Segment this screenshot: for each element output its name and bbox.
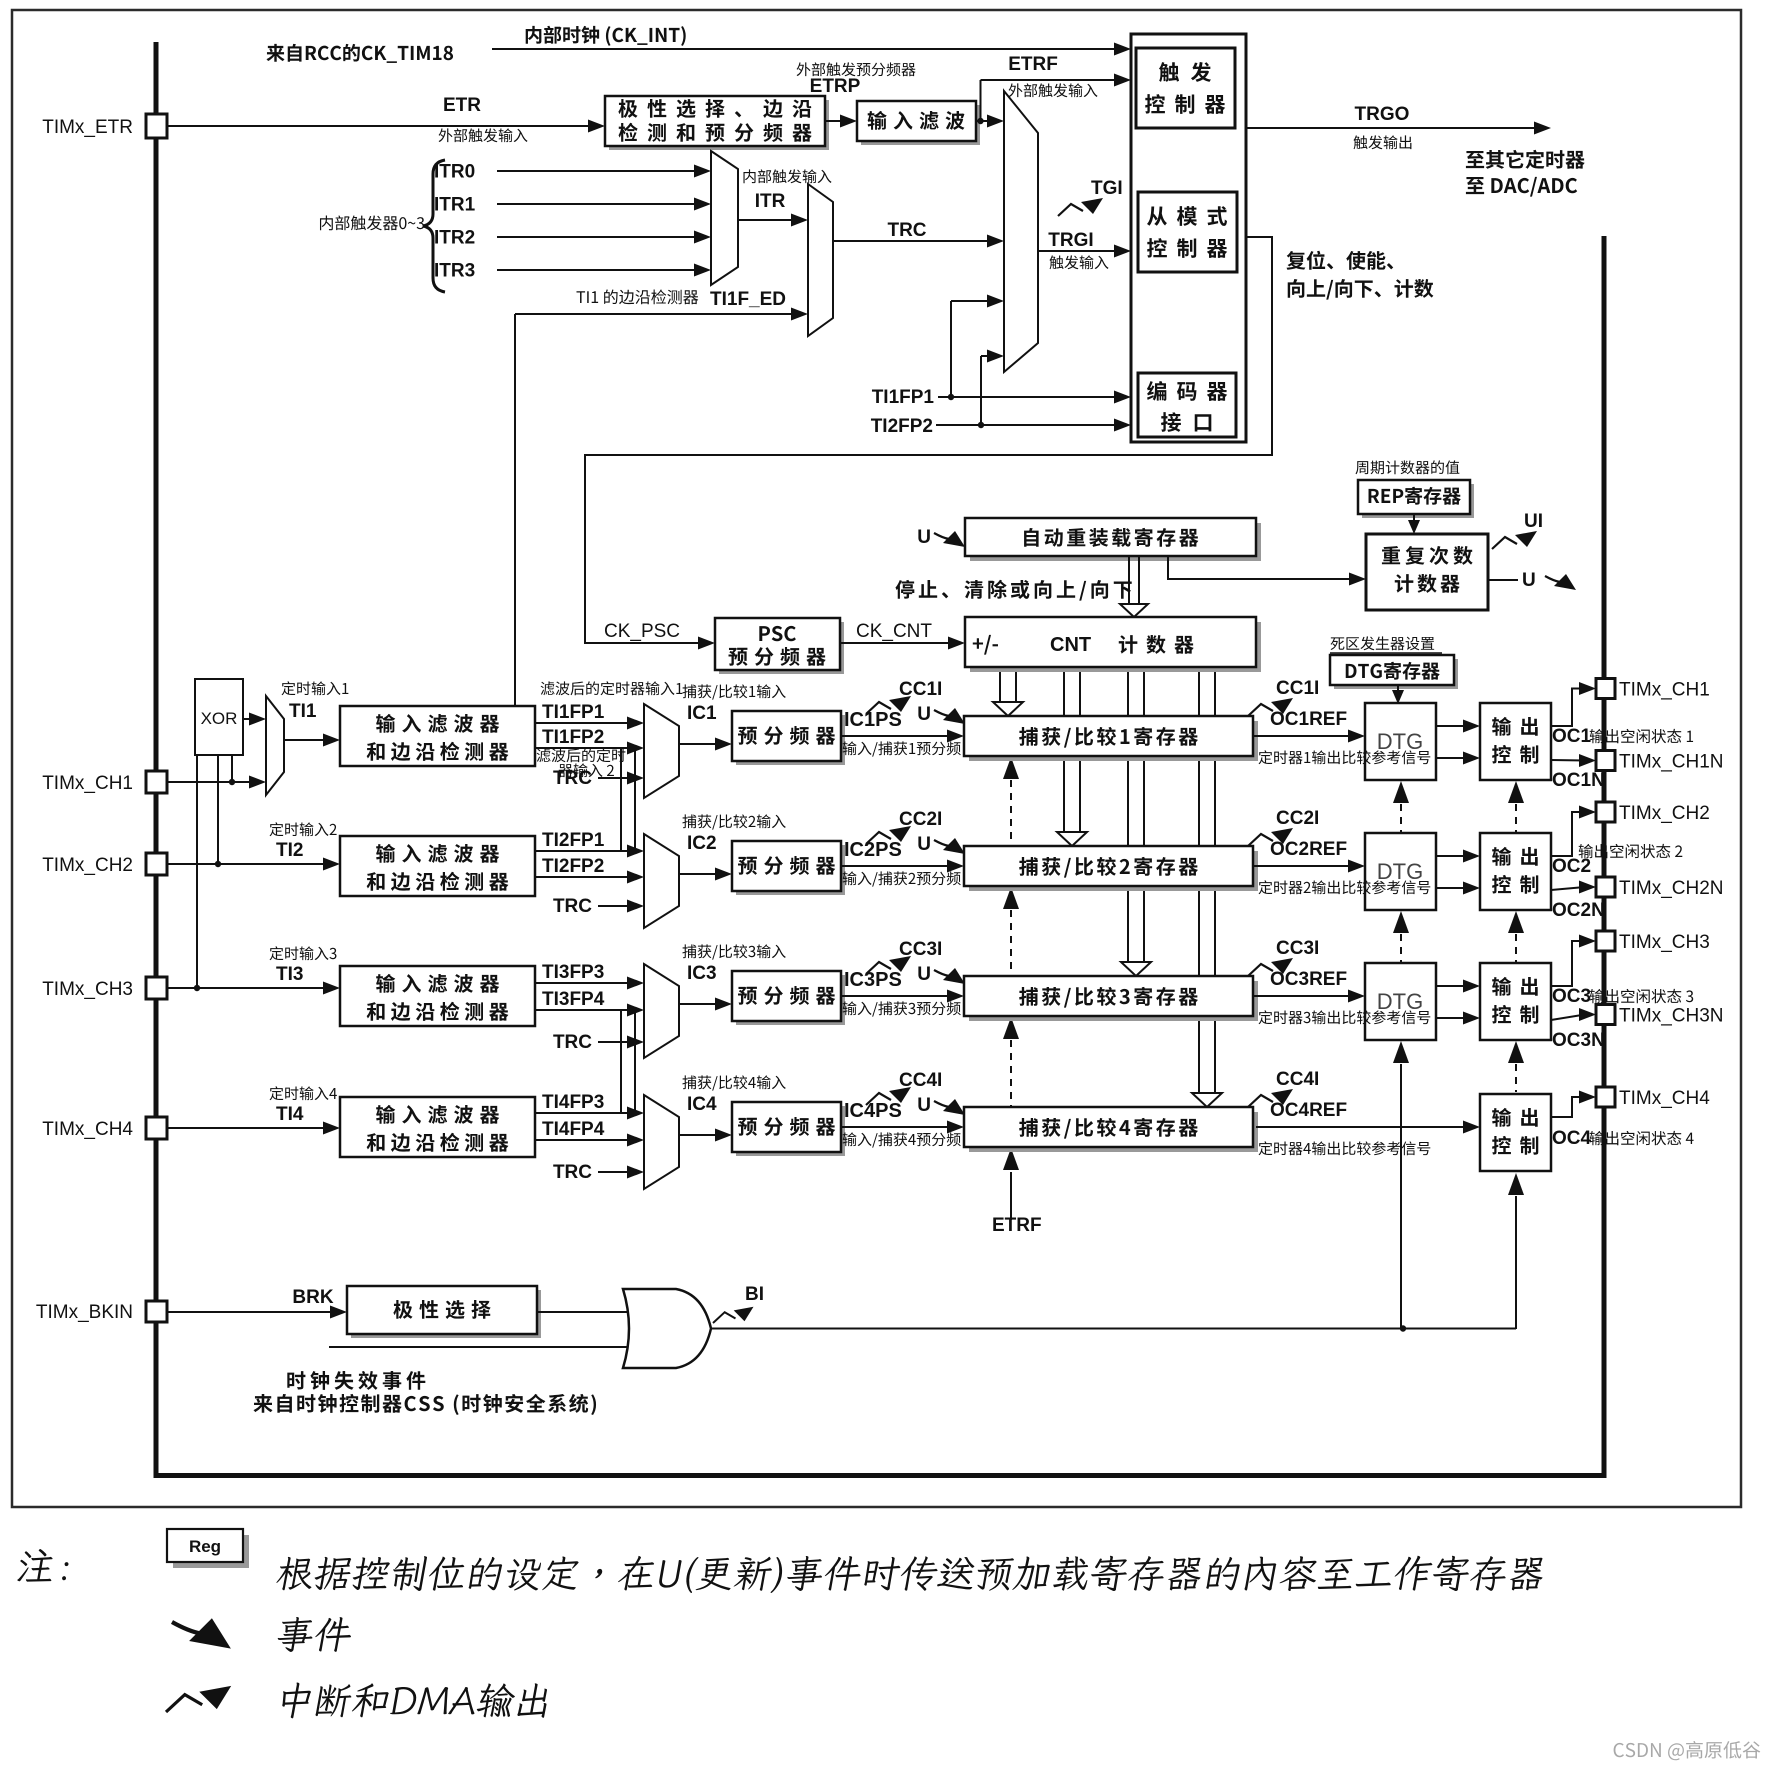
svg-text:Reg: Reg [189, 1537, 221, 1556]
svg-text:U: U [917, 704, 931, 725]
svg-text:TI4: TI4 [276, 1104, 304, 1125]
svg-text:XOR: XOR [201, 709, 238, 728]
svg-text:OC1REF: OC1REF [1270, 709, 1347, 730]
svg-text:TRGO: TRGO [1355, 104, 1410, 125]
svg-text:U: U [917, 834, 931, 855]
svg-text:TRC: TRC [887, 220, 926, 241]
svg-text:TI4FP3: TI4FP3 [542, 1092, 604, 1113]
svg-text:TIMx_CH3: TIMx_CH3 [42, 979, 133, 1000]
svg-text:CC1I: CC1I [1276, 678, 1319, 699]
svg-text:BI: BI [745, 1284, 764, 1305]
svg-text:IC1PS: IC1PS [844, 709, 902, 731]
svg-text:DTG: DTG [1377, 989, 1423, 1014]
svg-text:IC4: IC4 [687, 1094, 717, 1115]
svg-text:ITR: ITR [755, 191, 786, 212]
svg-text:TI3FP3: TI3FP3 [542, 962, 604, 983]
svg-text:ITR0: ITR0 [434, 162, 475, 183]
svg-text:CC4I: CC4I [899, 1070, 942, 1091]
svg-text:CC2I: CC2I [899, 809, 942, 830]
svg-text:CC4I: CC4I [1276, 1069, 1319, 1090]
svg-text:ITR1: ITR1 [434, 195, 476, 216]
svg-text:ETR: ETR [443, 95, 481, 116]
svg-text:ETRF: ETRF [992, 1215, 1042, 1236]
svg-text:TI2FP2: TI2FP2 [871, 416, 933, 437]
svg-text:ITR3: ITR3 [434, 261, 475, 282]
svg-text:TI1: TI1 [289, 701, 317, 722]
svg-text:TIMx_CH2: TIMx_CH2 [1619, 803, 1710, 824]
svg-text:IC3PS: IC3PS [844, 969, 902, 991]
svg-text:TIMx_ETR: TIMx_ETR [42, 117, 133, 138]
svg-text:IC4PS: IC4PS [844, 1100, 902, 1122]
svg-text:DTG: DTG [1377, 859, 1423, 884]
svg-text:OC3REF: OC3REF [1270, 969, 1347, 990]
svg-text:BRK: BRK [292, 1287, 333, 1308]
svg-text:OC2REF: OC2REF [1270, 839, 1347, 860]
svg-text:TI2: TI2 [276, 840, 303, 861]
svg-text:TIMx_CH1: TIMx_CH1 [1619, 680, 1710, 701]
svg-text:TI3: TI3 [276, 964, 303, 985]
svg-text:CC2I: CC2I [1276, 808, 1319, 829]
svg-text:TIMx_CH2: TIMx_CH2 [42, 855, 133, 876]
svg-text:TI4FP4: TI4FP4 [542, 1119, 605, 1140]
svg-text:IC1: IC1 [687, 703, 717, 724]
svg-text:TI2FP1: TI2FP1 [542, 830, 605, 851]
svg-text:TGI: TGI [1091, 178, 1123, 199]
svg-text:IC2PS: IC2PS [844, 839, 902, 861]
svg-text:TI3FP4: TI3FP4 [542, 989, 605, 1010]
svg-text:TIMx_BKIN: TIMx_BKIN [36, 1302, 133, 1323]
svg-text:TI1FP1: TI1FP1 [542, 702, 605, 723]
svg-text:TIMx_CH4: TIMx_CH4 [1619, 1088, 1710, 1109]
svg-text:CK_PSC: CK_PSC [604, 621, 680, 642]
svg-text:IC2: IC2 [687, 833, 717, 854]
svg-text:TRGI: TRGI [1048, 230, 1093, 251]
svg-text:ETRF: ETRF [1008, 54, 1058, 75]
svg-text:TRC: TRC [553, 896, 592, 917]
svg-text:TI1F_ED: TI1F_ED [710, 289, 786, 310]
svg-text:DTG: DTG [1377, 729, 1423, 754]
svg-text:CC3I: CC3I [899, 939, 942, 960]
svg-text:TRC: TRC [553, 1032, 592, 1053]
svg-text:CNT: CNT [1050, 634, 1091, 656]
svg-text:TRC: TRC [553, 1162, 592, 1183]
svg-text:OC1N: OC1N [1552, 770, 1605, 791]
svg-text:CC1I: CC1I [899, 679, 942, 700]
svg-text:TI2FP2: TI2FP2 [542, 856, 604, 877]
svg-text:OC4REF: OC4REF [1270, 1100, 1347, 1121]
svg-text:OC2N: OC2N [1552, 900, 1605, 921]
svg-text:CK_CNT: CK_CNT [856, 621, 932, 642]
svg-text:TI1FP2: TI1FP2 [542, 727, 604, 748]
svg-text:TIMx_CH3: TIMx_CH3 [1619, 932, 1710, 953]
svg-text:CC3I: CC3I [1276, 938, 1319, 959]
svg-text:OC3: OC3 [1552, 986, 1591, 1007]
svg-text:OC2: OC2 [1552, 856, 1591, 877]
svg-text:TIMx_CH4: TIMx_CH4 [42, 1119, 133, 1140]
svg-text:TIMx_CH1N: TIMx_CH1N [1619, 752, 1724, 773]
svg-text:TIMx_CH1: TIMx_CH1 [42, 773, 133, 794]
svg-text:OC4: OC4 [1552, 1128, 1592, 1149]
svg-text:U: U [917, 527, 931, 548]
svg-text:TIMx_CH3N: TIMx_CH3N [1619, 1006, 1724, 1027]
svg-text:U: U [917, 964, 931, 985]
svg-text:U: U [917, 1095, 931, 1116]
svg-text:ETRP: ETRP [810, 76, 861, 97]
svg-text:U: U [1522, 570, 1536, 591]
svg-text:OC1: OC1 [1552, 726, 1592, 747]
svg-text:OC3N: OC3N [1552, 1030, 1605, 1051]
svg-text:ITR2: ITR2 [434, 228, 475, 249]
svg-text:TI1FP1: TI1FP1 [872, 387, 935, 408]
svg-text:TIMx_CH2N: TIMx_CH2N [1619, 878, 1724, 899]
svg-text:UI: UI [1524, 511, 1543, 532]
svg-text:IC3: IC3 [687, 963, 717, 984]
